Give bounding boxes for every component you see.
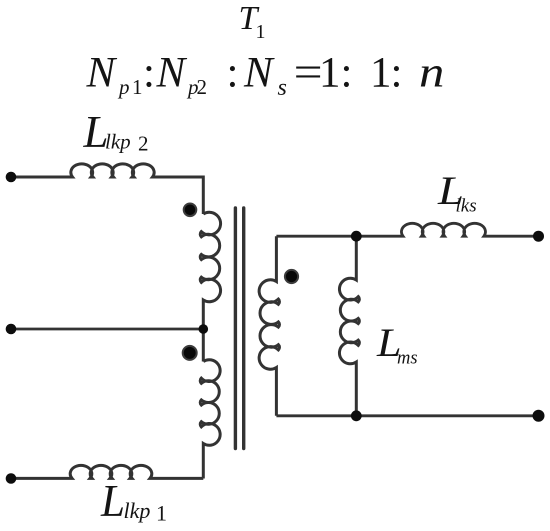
svg-text:2: 2 xyxy=(197,75,208,99)
svg-text:lkp: lkp xyxy=(124,498,151,523)
svg-text:L: L xyxy=(100,475,125,526)
svg-text:n: n xyxy=(419,50,444,97)
svg-text:lks: lks xyxy=(456,196,477,217)
svg-text:2: 2 xyxy=(138,132,149,156)
svg-text:1: 1 xyxy=(319,50,341,97)
svg-text::: : xyxy=(143,50,155,97)
svg-text:1: 1 xyxy=(256,21,266,43)
svg-text:1: 1 xyxy=(156,501,167,526)
svg-text:p: p xyxy=(117,75,130,99)
svg-text:N: N xyxy=(86,50,118,97)
svg-text:1: 1 xyxy=(370,50,392,97)
svg-text:N: N xyxy=(156,50,188,97)
svg-text:s: s xyxy=(278,75,287,101)
svg-text::: : xyxy=(227,50,239,97)
svg-text:1: 1 xyxy=(132,75,143,99)
svg-text::: : xyxy=(341,50,353,97)
svg-text:N: N xyxy=(243,50,275,97)
svg-text::: : xyxy=(391,50,403,97)
svg-text:lkp: lkp xyxy=(105,130,131,154)
svg-text:ms: ms xyxy=(397,349,418,369)
